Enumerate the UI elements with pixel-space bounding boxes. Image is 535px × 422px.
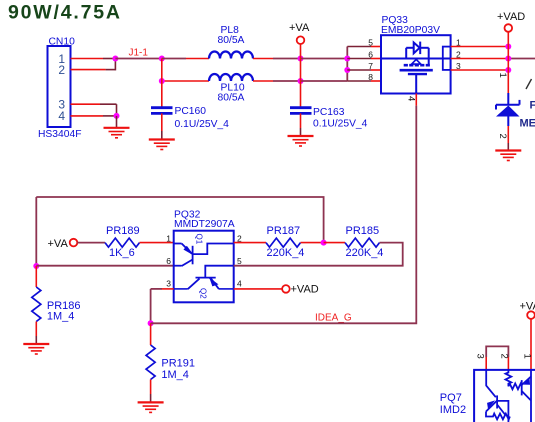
wire pin7 stub	[347, 69, 371, 71]
svg-text:0.1U/25V_4: 0.1U/25V_4	[175, 119, 230, 130]
svg-text:4: 4	[406, 96, 417, 101]
wire rowB from PC160 node	[162, 80, 209, 82]
power +VAD top	[497, 11, 525, 32]
transistor-array PQ7	[440, 370, 535, 422]
svg-text:+VA: +VA	[289, 22, 310, 34]
resistor lower	[486, 412, 510, 420]
ground PC160	[149, 140, 175, 150]
svg-text:IDEA_G: IDEA_G	[315, 313, 352, 324]
wire J1-1	[115, 58, 161, 60]
svg-text:F: F	[530, 100, 535, 112]
connector CN10	[38, 37, 82, 141]
svg-text:4: 4	[58, 109, 65, 123]
wire pin5 stub	[347, 46, 371, 48]
svg-text:1: 1	[522, 354, 533, 359]
mosfet PQ33	[368, 15, 461, 101]
wire PQ7 pin3-pin2 loop	[486, 346, 508, 369]
pin1 internal vertical	[530, 370, 532, 422]
transistor lower collector	[497, 405, 506, 416]
svg-text:1: 1	[497, 73, 508, 78]
wire rowB to bus	[301, 80, 348, 82]
svg-text:HS3404F: HS3404F	[38, 129, 82, 140]
transistor lower base	[496, 395, 498, 408]
transistor upper base	[521, 380, 523, 395]
wire CN10 pin2	[71, 59, 116, 71]
svg-text:+VA: +VA	[48, 238, 69, 250]
junction +VAD pin1	[505, 44, 511, 50]
svg-text:PC160: PC160	[175, 106, 207, 117]
wire to ground	[116, 116, 118, 127]
svg-text:80/5A: 80/5A	[218, 35, 245, 46]
svg-text:220K_4: 220K_4	[267, 247, 305, 259]
svg-text:J1-1: J1-1	[129, 48, 149, 59]
svg-text:5: 5	[368, 38, 373, 48]
resistor to base horizontal	[508, 384, 521, 390]
wire PQ33 pin3	[451, 69, 509, 71]
wire pin8 stub	[347, 80, 371, 82]
wire to PL8	[162, 58, 209, 60]
junction feedback node	[321, 240, 327, 246]
capacitor PC160	[151, 106, 229, 130]
wire left vertical	[35, 197, 37, 266]
wire PQ33 pin1	[451, 46, 509, 48]
svg-text:PR191: PR191	[161, 358, 195, 370]
wire PQ33 pin2	[451, 58, 509, 60]
wire pin4 to +VAD	[234, 288, 282, 290]
svg-text:PQ7: PQ7	[440, 392, 462, 404]
wire PL8 to node	[253, 58, 301, 60]
wire junction to PR185	[324, 242, 345, 244]
svg-text:+VAD: +VAD	[291, 283, 319, 295]
transistor-pair PQ32	[166, 210, 242, 303]
svg-text:Q2: Q2	[199, 288, 208, 299]
wire +VAD down	[507, 32, 509, 93]
wire PL10 to node	[253, 80, 301, 82]
svg-text:0.1U/25V_4: 0.1U/25V_4	[313, 119, 368, 130]
wire rowA to bus	[301, 58, 348, 60]
wire CN10 pin4	[71, 115, 117, 117]
svg-text:+VAD: +VAD	[497, 11, 525, 23]
svg-text:ME: ME	[520, 118, 535, 130]
svg-text:3: 3	[475, 354, 486, 359]
transistor lower emitter	[486, 401, 497, 412]
svg-text:PR189: PR189	[106, 225, 140, 237]
wire pin6 row PQ32	[36, 265, 173, 267]
svg-text:PC163: PC163	[313, 107, 345, 118]
wire CN10 pin1	[71, 58, 116, 60]
junction +VA/rowA	[298, 56, 304, 62]
power +VA left	[48, 238, 78, 250]
capacitor PC163	[290, 107, 368, 130]
svg-text:90W/4.75A: 90W/4.75A	[8, 2, 122, 24]
wire pin3 to IDEA_G	[151, 289, 174, 323]
ground CN10	[104, 128, 130, 138]
wire top loop	[36, 197, 323, 243]
resistor pin2 vertical	[506, 370, 512, 387]
svg-text:Q1: Q1	[195, 234, 204, 245]
box edges	[474, 370, 535, 422]
svg-text:2: 2	[499, 354, 510, 359]
svg-text:5: 5	[237, 256, 242, 266]
svg-text:220K_4: 220K_4	[346, 247, 384, 259]
wire PC160 to ground	[161, 113, 163, 139]
zener diode	[496, 93, 520, 126]
wire pin2 to PR187	[234, 242, 266, 244]
wire CN10 pin3	[71, 104, 117, 116]
wire +VA down through PC163	[300, 44, 302, 107]
svg-text:2: 2	[58, 63, 65, 77]
svg-text:6: 6	[166, 256, 171, 266]
ground PR186	[23, 344, 49, 354]
svg-text:8: 8	[368, 72, 373, 82]
svg-text:6: 6	[368, 50, 373, 60]
junction pins1-2	[112, 56, 118, 62]
wire +VA to PQ7 pin1	[530, 319, 532, 370]
pin3 internal path	[486, 370, 496, 398]
wire PR187 to junction	[301, 242, 324, 244]
transistor upper emitter	[522, 377, 531, 386]
junction +VA/rowB	[298, 78, 304, 84]
svg-text:3: 3	[166, 279, 171, 289]
resistor PR191	[146, 323, 195, 402]
transistor Q1	[174, 244, 234, 267]
resistor PR185	[345, 225, 383, 259]
svg-text:7: 7	[368, 61, 373, 71]
svg-text:MMDT2907A: MMDT2907A	[174, 219, 235, 230]
power +VA bottom right	[520, 301, 535, 319]
resistor PR186	[32, 266, 81, 344]
power +VAD mid	[282, 283, 319, 295]
inductor PL8	[209, 25, 253, 59]
junction bus pin7	[344, 67, 350, 73]
svg-text:1M_4: 1M_4	[47, 311, 75, 323]
svg-text:80/5A: 80/5A	[218, 92, 245, 103]
svg-text:1: 1	[166, 234, 171, 244]
wire pin6 stub	[347, 58, 371, 60]
ground PC163	[288, 136, 314, 146]
junction rowB/PC160	[159, 78, 165, 84]
ground diode	[495, 151, 521, 161]
junction bus pin6	[344, 56, 350, 62]
wire PQ33 pin4 stub	[415, 94, 417, 106]
transistor Q2	[174, 266, 234, 289]
junction left node	[33, 263, 39, 269]
svg-text:1M_4: 1M_4	[161, 369, 189, 381]
resistor PR187	[266, 225, 304, 259]
wire PR185 loop to pin5	[234, 243, 403, 266]
ground PR191	[138, 402, 164, 412]
svg-text:PR185: PR185	[346, 225, 380, 237]
svg-text:1K_6: 1K_6	[109, 247, 135, 259]
slash mark (cut symbol)	[526, 79, 532, 89]
mosfet internals	[381, 42, 451, 94]
junction J1-1/PC160	[159, 56, 165, 62]
svg-text:PR187: PR187	[267, 225, 301, 237]
wire PR189 to pin1	[140, 242, 174, 244]
junction +VAD pin2	[505, 56, 511, 62]
bus vertical pins 5-8	[346, 47, 348, 82]
wire +VA to PR189	[77, 242, 105, 244]
svg-text:+VA: +VA	[520, 301, 535, 313]
power +VA top	[289, 22, 310, 44]
junction IDEA_G node	[148, 320, 154, 326]
svg-text:2: 2	[497, 134, 508, 139]
svg-text:IMD2: IMD2	[440, 404, 466, 416]
resistor PR189	[105, 225, 140, 259]
svg-text:CN10: CN10	[49, 37, 76, 48]
wire PC163 to ground	[300, 113, 302, 135]
wire pin2 net to edge	[508, 58, 535, 60]
transistor upper collector	[522, 391, 531, 401]
svg-text:4: 4	[237, 279, 242, 289]
wire diode to ground	[507, 126, 509, 150]
junction pins3-4	[114, 113, 120, 119]
wire routing rect	[498, 401, 509, 422]
junction +VAD pin3	[505, 67, 511, 73]
vertical wire node J1-1 to PC160	[161, 59, 163, 108]
wire IDEA_G	[151, 106, 417, 324]
inductor PL10	[209, 74, 253, 103]
